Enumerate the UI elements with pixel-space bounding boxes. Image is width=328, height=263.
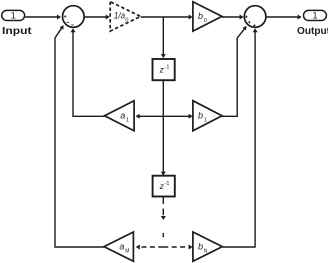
plus sign bottom input <box>253 24 256 27</box>
svg-text:a: a <box>119 242 124 252</box>
wire 1/a0 to gain b0 <box>141 15 193 20</box>
svg-text:N: N <box>204 248 208 254</box>
wire z1 to z2 <box>161 80 166 175</box>
wire Input to sum S1 <box>25 15 61 20</box>
gain 1/a0 (dashed triangle) <box>110 2 140 31</box>
gain b1 <box>193 101 222 131</box>
plus sign left input <box>64 15 67 18</box>
wire b1 to S2 (diagonal into circle) <box>222 26 247 116</box>
delay z1 <box>153 59 175 80</box>
dashed wire z2 down (ellipsis) <box>161 197 166 237</box>
svg-text:1: 1 <box>11 11 16 21</box>
plus sign left input <box>245 16 248 19</box>
wire S1 to gain 1/a0 <box>84 15 109 20</box>
wire aM to S1 (feedback, diagonal into circle) <box>55 25 104 247</box>
gain b0 <box>193 2 222 31</box>
svg-text:1: 1 <box>312 11 317 21</box>
sum S1 <box>63 6 85 28</box>
svg-text:1/a: 1/a <box>114 11 125 22</box>
svg-text:Input: Input <box>2 26 32 37</box>
gain aM (left-pointing) <box>104 232 133 261</box>
svg-text:b: b <box>198 11 203 21</box>
inport Input <box>2 10 25 20</box>
wire branch down to delay z1 <box>161 17 166 58</box>
gain bN <box>193 232 222 261</box>
svg-text:1: 1 <box>204 118 207 124</box>
wire S2 to Output <box>266 15 302 20</box>
plus sign lower-left input <box>248 21 251 24</box>
svg-text:b: b <box>198 111 203 121</box>
wire b0 to sum S2 <box>222 15 244 20</box>
wire a1 to S1 <box>71 28 105 116</box>
wire tap to a1 (arrow left) <box>136 114 164 119</box>
svg-text:M: M <box>125 248 129 254</box>
wire bN to S2 <box>222 28 257 247</box>
dashed tap to aM (arrow left) <box>136 245 164 250</box>
dashed tap to bN (arrow right) <box>163 245 192 250</box>
svg-text:Output: Output <box>297 26 328 37</box>
svg-text:-1: -1 <box>165 65 170 71</box>
svg-text:0: 0 <box>204 18 207 24</box>
delay z2 <box>153 176 175 197</box>
outport Output <box>304 10 327 20</box>
svg-text:a: a <box>120 111 125 121</box>
gain a1 (left-pointing) <box>105 101 135 131</box>
minus sign lower-left input <box>67 21 70 23</box>
svg-text:1: 1 <box>126 118 129 124</box>
sum S2 <box>244 6 266 28</box>
minus sign bottom input <box>71 24 74 26</box>
wire tap to b1 (arrow right) <box>163 114 192 119</box>
svg-text:-1: -1 <box>165 181 170 187</box>
svg-text:b: b <box>198 242 203 252</box>
